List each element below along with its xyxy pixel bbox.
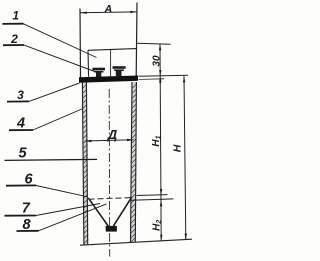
shell wall left outer line bbox=[82, 82, 84, 245]
cover top line bbox=[88, 49, 136, 51]
svg-text:Н1: Н1 bbox=[151, 135, 163, 146]
arrow H1 bottom bbox=[160, 189, 162, 195]
funnel right slant bbox=[113, 197, 131, 226]
arrow H2 top bbox=[160, 200, 162, 206]
arrow H2 bottom bbox=[160, 235, 162, 241]
outlet fitting bbox=[106, 226, 117, 232]
underline 4 bbox=[9, 129, 33, 131]
extension line flange level bbox=[139, 75, 189, 76]
bolt right collar bbox=[114, 69, 124, 71]
svg-text:А: А bbox=[103, 3, 112, 15]
shell wall left gray fill bbox=[82, 82, 87, 245]
bolt left cap bbox=[92, 68, 105, 71]
leader 2 bbox=[24, 45, 96, 72]
svg-text:7: 7 bbox=[22, 201, 31, 217]
svg-text:2: 2 bbox=[10, 32, 18, 46]
arrow H bottom bbox=[185, 234, 187, 240]
bolt right cap bbox=[113, 66, 126, 69]
arrow 30 bottom / H1 top bbox=[159, 70, 161, 76]
leader 7 bbox=[36, 204, 100, 216]
arrow A right bbox=[130, 11, 136, 13]
dashed line funnel top bbox=[89, 198, 132, 200]
funnel left slant bbox=[88, 198, 108, 226]
shell wall right outer line bbox=[135, 82, 136, 242]
underline 3 bbox=[7, 100, 29, 102]
arrow H top bbox=[183, 76, 185, 82]
shell wall right inner line bbox=[131, 82, 133, 243]
svg-text:3: 3 bbox=[17, 88, 24, 102]
leader 3 bbox=[29, 83, 80, 101]
arrow D left bbox=[85, 140, 91, 142]
leader 4 bbox=[33, 109, 83, 131]
dimension line A bbox=[80, 11, 137, 14]
svg-text:4: 4 bbox=[16, 115, 25, 131]
shell wall left inner line bbox=[86, 82, 87, 245]
leader 8 bbox=[39, 204, 107, 231]
svg-text:1: 1 bbox=[12, 9, 19, 23]
bolt left stem bbox=[96, 72, 101, 77]
extension line flange level lower bbox=[139, 78, 165, 81]
arrow D right bbox=[127, 139, 133, 141]
underline 7 bbox=[5, 215, 37, 217]
arrow H1 top second bbox=[159, 76, 161, 82]
dimension line H vertical bbox=[184, 76, 186, 240]
flange bar bbox=[79, 76, 138, 83]
shell wall left hatching bbox=[83, 84, 88, 243]
leader 6 bbox=[36, 186, 88, 197]
extension line 30 top bbox=[137, 43, 171, 44]
extension line funnel level upper bbox=[137, 194, 168, 197]
arrow A left bbox=[81, 12, 87, 14]
extension line funnel level lower bbox=[132, 199, 174, 200]
centerline bbox=[108, 89, 111, 257]
svg-text:Н: Н bbox=[172, 144, 184, 152]
extension line left (dimension A) bbox=[79, 9, 82, 79]
bolt left collar bbox=[94, 71, 103, 73]
leader 1 bbox=[24, 24, 97, 58]
extension line right (dimension A) / cover right edge bbox=[135, 3, 138, 77]
underline 8 bbox=[17, 230, 39, 232]
shell wall right hatching bbox=[131, 84, 136, 242]
underline 6 bbox=[6, 184, 36, 186]
arrow 30 top bbox=[159, 44, 161, 50]
cover left edge bbox=[87, 50, 90, 77]
underline and leader 5 bbox=[5, 159, 98, 160]
dimension line D bbox=[85, 140, 134, 141]
underline 2 bbox=[3, 44, 24, 46]
shell wall right gray fill bbox=[131, 82, 137, 243]
svg-text:Д: Д bbox=[107, 127, 118, 142]
underline 1 bbox=[2, 23, 23, 25]
svg-text:Н2: Н2 bbox=[152, 220, 164, 231]
bottom line bbox=[80, 239, 192, 245]
svg-text:30: 30 bbox=[151, 55, 162, 67]
cover centerline bbox=[110, 50, 112, 77]
dimension line 30 / H1 / H2 vertical bbox=[160, 44, 161, 241]
bolt right stem bbox=[116, 71, 122, 76]
svg-text:5: 5 bbox=[18, 145, 27, 161]
